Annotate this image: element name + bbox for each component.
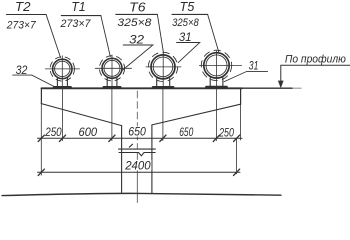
svg-text:650: 650: [179, 125, 193, 139]
label T1: [60, 0, 111, 57]
extension line left end: [40, 104, 42, 176]
svg-text:По профилю: По профилю: [285, 53, 346, 65]
label T2: [6, 0, 61, 58]
svg-text:600: 600: [79, 125, 98, 139]
main profile line (top of beam): [41, 87, 242, 89]
pipe T2: [45, 56, 79, 87]
dimension ticks row 1: [38, 135, 240, 141]
pipe T1: [95, 55, 131, 86]
extension line pipe T1: [111, 88, 113, 140]
svg-text:2400: 2400: [124, 159, 151, 173]
pipe T6: [146, 52, 181, 86]
dimension text 650: [127, 126, 147, 136]
saddle of pipe T6: [153, 78, 173, 87]
column left edge: [121, 126, 123, 194]
label T6: [116, 0, 164, 53]
dimension line row 1: [38, 137, 243, 139]
svg-text:Т1: Т1: [71, 0, 85, 14]
extension line right end upper: [240, 104, 242, 140]
svg-text:250: 250: [44, 125, 62, 139]
column centerline: [136, 91, 138, 149]
svg-text:32: 32: [129, 32, 144, 46]
svg-text:Т6: Т6: [129, 0, 146, 14]
svg-text:273×7: 273×7: [60, 18, 92, 30]
column break plate: [119, 144, 156, 156]
ground line bottom: [2, 193, 281, 195]
saddle of pipe T1: [104, 78, 121, 87]
dimension ticks 2400: [38, 169, 240, 175]
svg-text:31: 31: [179, 30, 192, 44]
dimension line 2400: [38, 171, 241, 173]
saddle of pipe T5: [206, 78, 226, 87]
callout 31 right: [224, 59, 267, 82]
dimension text 2400: [125, 160, 152, 171]
callout 31 middle: [177, 30, 200, 63]
label T5: [172, 0, 219, 54]
extension line right end lower: [236, 138, 238, 174]
callout 32 left: [13, 63, 54, 87]
pipe T5: [199, 50, 241, 86]
extension line pipe T6: [162, 88, 164, 140]
note: po profilyu: [278, 53, 350, 88]
beam left end: [40, 88, 42, 103]
svg-text:Т5: Т5: [180, 0, 196, 14]
svg-text:273×7: 273×7: [6, 19, 37, 31]
saddle of pipe T2: [54, 78, 71, 87]
beam right end: [240, 88, 242, 104]
extension line pipe T5: [215, 88, 217, 140]
svg-text:250: 250: [218, 126, 234, 140]
column right edge: [151, 125, 153, 193]
svg-text:325×8: 325×8: [117, 17, 152, 29]
beam left bottom slope: [41, 104, 121, 126]
svg-text:31: 31: [249, 59, 259, 73]
beam right bottom slope: [152, 104, 241, 125]
svg-text:Т2: Т2: [15, 0, 31, 14]
callout 32 middle: [122, 32, 153, 70]
svg-text:650: 650: [128, 124, 146, 138]
svg-text:325×8: 325×8: [172, 17, 199, 29]
extension line pipe T2: [62, 88, 64, 140]
